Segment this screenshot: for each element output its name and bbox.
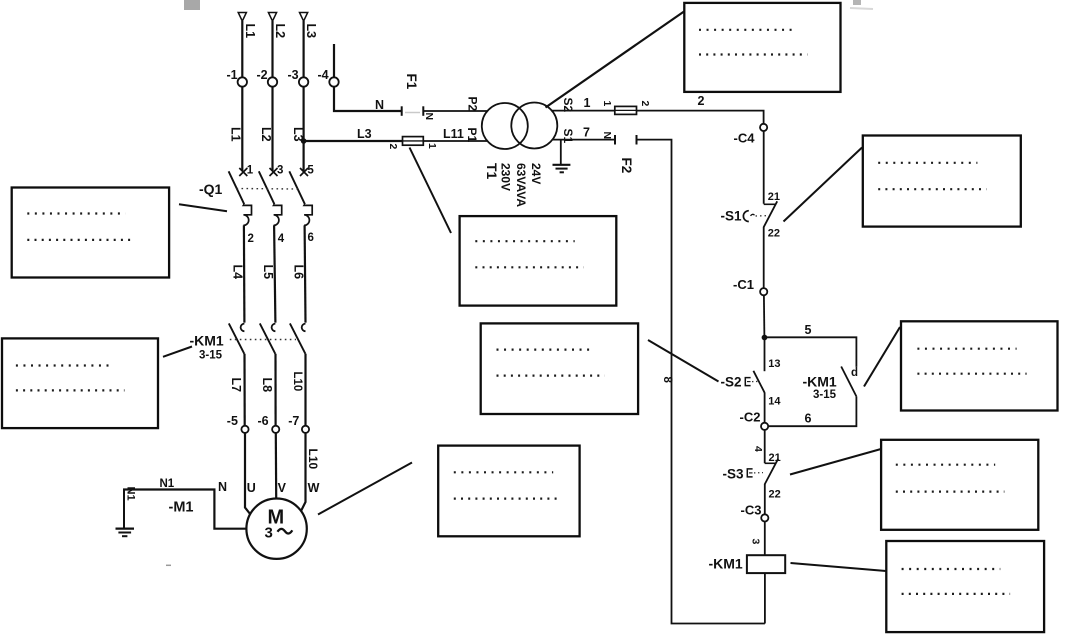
callout box coil (886, 541, 1044, 632)
wire 5 branch (765, 337, 857, 367)
svg-text:L11: L11 (443, 127, 464, 141)
wire N1 to motor (123, 490, 246, 529)
KM1 aux contact NO (841, 367, 856, 397)
svg-text:2: 2 (639, 101, 651, 107)
callout box Q1 (12, 188, 169, 278)
svg-text:-C2: -C2 (740, 410, 761, 425)
Q1 pole2 contact cross pin3 (270, 165, 284, 177)
svg-text:230V: 230V (499, 163, 513, 191)
svg-text:-5: -5 (227, 414, 238, 428)
svg-text:-KM1: -KM1 (190, 333, 224, 349)
junction node (762, 335, 768, 341)
terminal -4 (329, 77, 338, 86)
svg-text:L7: L7 (229, 378, 243, 393)
svg-text:d: d (851, 367, 858, 379)
svg-text:-3: -3 (288, 68, 299, 82)
KM1 pole3 blade (290, 323, 306, 353)
svg-text:63VAVA: 63VAVA (514, 163, 528, 207)
svg-text:P2: P2 (465, 97, 479, 112)
svg-text:N1: N1 (160, 478, 175, 490)
wire S2 out (552, 110, 615, 112)
supply arrow L3 (300, 13, 308, 22)
leader S3 to box (790, 449, 881, 475)
leader fuse to box (410, 148, 452, 234)
svg-text:L3: L3 (304, 24, 318, 39)
KM1 pole3 fixed contact hook (302, 324, 306, 332)
pushbutton S3 NC contact (765, 459, 779, 485)
wire F1 to P2 (423, 110, 487, 112)
terminal -6 (272, 426, 279, 433)
fuse on L3 primary (403, 137, 424, 146)
Q1 pole2 trip unit (274, 204, 282, 225)
svg-text:L3: L3 (357, 127, 372, 141)
svg-text:1: 1 (584, 96, 591, 110)
terminal -C2 (761, 423, 768, 430)
svg-text:T1: T1 (484, 163, 500, 180)
pushbutton S2 NO contact (753, 371, 764, 393)
svg-text:21: 21 (768, 191, 780, 203)
terminal -7 (302, 426, 309, 433)
svg-text:6: 6 (805, 412, 812, 426)
F2 tick left (614, 135, 616, 145)
svg-text:8: 8 (661, 377, 673, 384)
wire phase L3 vertical (303, 21, 305, 171)
KM1 pole2 blade (260, 323, 276, 353)
svg-text:-M1: -M1 (169, 500, 194, 516)
svg-text:U: U (247, 481, 256, 495)
supply arrow L1 (238, 13, 246, 22)
Q1 pole3 blade (289, 171, 305, 204)
svg-text:-2: -2 (257, 68, 268, 82)
svg-text:L1: L1 (229, 127, 243, 142)
KM1 pole2 lower wire L8 (274, 354, 276, 425)
leader box to KM1 (163, 347, 192, 357)
F2 tick right (636, 135, 638, 145)
svg-text:4: 4 (278, 233, 285, 245)
svg-text:22: 22 (769, 489, 781, 501)
svg-text:L10: L10 (291, 372, 303, 392)
transformer ground tap (553, 140, 571, 173)
wire S2 to C2 (764, 393, 766, 423)
S3 actuator (747, 469, 763, 477)
svg-text:L1: L1 (243, 24, 257, 39)
svg-text:-S1: -S1 (721, 209, 743, 224)
terminal -2 (268, 77, 277, 86)
svg-text:L6: L6 (291, 265, 305, 280)
svg-text:4: 4 (752, 446, 764, 452)
S1 mushroom actuator (743, 211, 769, 222)
wire U from -5 to motor (245, 433, 251, 515)
wire 6 return (768, 397, 856, 427)
transformer T1 primary winding (482, 103, 528, 149)
callout box trafo (684, 3, 840, 92)
svg-text:-C3: -C3 (741, 503, 762, 518)
svg-text:-C4: -C4 (734, 131, 756, 146)
wire C1 to junction (763, 295, 766, 338)
svg-text:5: 5 (805, 323, 812, 337)
svg-text:F2: F2 (619, 158, 634, 174)
svg-text:-7: -7 (288, 414, 299, 428)
svg-text:P1: P1 (465, 128, 479, 143)
svg-text:22: 22 (768, 228, 780, 240)
F1 tick left (401, 106, 403, 116)
wire coil to bottom (764, 573, 766, 623)
wire S3 to C3 (764, 484, 766, 514)
callout box fuse (460, 216, 617, 306)
fuse on control circuit (615, 106, 637, 114)
scan artifact faint line top-right (850, 8, 873, 9)
svg-text:-1: -1 (227, 68, 238, 82)
svg-text:24V: 24V (529, 163, 543, 184)
terminal -5 (241, 426, 248, 433)
wire phase L2 vertical (271, 21, 273, 171)
callout box motor (438, 446, 579, 537)
leader box to S2 (648, 340, 719, 382)
wire S1 out (553, 139, 616, 141)
svg-text:-6: -6 (258, 414, 269, 428)
Q1 pole1 contact cross pin1 (239, 165, 254, 177)
Q1 pole1 output wire L4 (243, 225, 246, 322)
svg-text:-KM1: -KM1 (709, 556, 743, 572)
wire V from -6 to motor (275, 433, 278, 499)
terminal -C4 (760, 124, 767, 131)
svg-text:N: N (423, 113, 435, 121)
scan artifact gray square top-left (184, 0, 200, 10)
leader coil to box (791, 563, 887, 571)
F1 faint link (405, 112, 420, 114)
svg-text:3: 3 (277, 165, 283, 177)
node L3 junction (301, 138, 307, 144)
svg-text:5: 5 (307, 165, 314, 177)
svg-text:-C1: -C1 (733, 277, 754, 292)
KM1 pole3 lower wire L10 (304, 354, 306, 425)
svg-text:N: N (375, 98, 384, 112)
S2 actuator (745, 378, 759, 386)
svg-text:13: 13 (768, 358, 780, 370)
callout box S1 (863, 136, 1021, 227)
svg-text:2: 2 (698, 94, 705, 108)
wire 2 to C4 (637, 111, 764, 124)
svg-text:N: N (218, 480, 227, 494)
svg-text:L2: L2 (273, 24, 287, 39)
leader box to Q1 (179, 204, 227, 211)
Q1 gang dashed link (237, 188, 298, 191)
leader KM1 aux to box (864, 327, 900, 387)
svg-text:S2: S2 (561, 98, 575, 113)
svg-text:S1: S1 (561, 129, 575, 144)
terminal -C3 (761, 514, 768, 521)
terminal -C1 (760, 288, 767, 295)
wire C2 to S3 (764, 430, 766, 463)
callout box S2 (481, 323, 638, 414)
svg-text:2: 2 (248, 233, 254, 245)
svg-text:L5: L5 (261, 265, 275, 280)
svg-text:3: 3 (265, 525, 273, 542)
Q1 pole2 blade (259, 171, 275, 204)
KM1 pole2 fixed contact hook (272, 324, 276, 332)
svg-text:L10: L10 (306, 449, 320, 470)
wire neutral drop (334, 44, 402, 111)
callout box KM1 aux (901, 321, 1058, 410)
Q1 pole1 trip unit (243, 204, 251, 225)
svg-text:F1: F1 (404, 74, 419, 90)
wire phase L1 vertical (241, 21, 243, 171)
svg-text:W: W (308, 481, 320, 495)
leader trafo to box (546, 12, 685, 108)
svg-text:-S2: -S2 (721, 375, 742, 390)
coil KM1 (747, 555, 785, 573)
callout box KM1 (2, 338, 158, 428)
wire W from -7 to motor (301, 433, 306, 512)
svg-text:14: 14 (768, 396, 781, 408)
wire 8 down right side (637, 140, 765, 624)
svg-text:L2: L2 (259, 127, 273, 142)
wire junction to S2 (764, 337, 766, 371)
supply arrow L2 (268, 13, 276, 22)
svg-text:-KM1: -KM1 (803, 374, 837, 390)
Q1 pole2 output wire L5 (274, 225, 275, 322)
svg-text:L4: L4 (231, 265, 245, 280)
svg-text:L8: L8 (260, 378, 274, 393)
Q1 pole3 trip unit (304, 204, 312, 225)
pushbutton S1 NC contact (764, 201, 778, 227)
svg-text:3-15: 3-15 (199, 350, 223, 362)
wire L11 to P1 (423, 140, 487, 142)
Q1 pole1 blade (229, 171, 245, 204)
svg-text:21: 21 (769, 452, 781, 464)
KM1 pole1 blade (229, 323, 245, 353)
svg-text:1: 1 (426, 143, 438, 149)
wire L3 to fuse (304, 140, 403, 142)
wire C3 to coil (764, 522, 766, 556)
scan artifact gray square top-right (853, 0, 861, 5)
wire C4 to S1 (763, 131, 765, 204)
svg-text:1: 1 (247, 165, 254, 177)
ground left (116, 490, 135, 537)
KM1 pole1 fixed contact hook (241, 324, 245, 332)
svg-text:3-15: 3-15 (813, 389, 837, 401)
motor tilde (278, 529, 293, 534)
svg-text:-Q1: -Q1 (199, 181, 223, 197)
terminal -3 (299, 77, 308, 86)
wire S1 to C1 (763, 227, 765, 288)
leader motor to box (318, 463, 412, 515)
svg-text:2: 2 (387, 144, 399, 150)
Q1 pole3 output wire L6 (304, 225, 307, 322)
motor M1 body (246, 499, 306, 559)
svg-text:7: 7 (583, 126, 590, 140)
leader S1 to box (784, 148, 863, 222)
F1 tick right (422, 106, 424, 116)
transformer T1 secondary winding (511, 103, 557, 149)
Q1 pole3 contact cross pin5 (300, 165, 314, 177)
svg-text:-4: -4 (318, 68, 329, 82)
terminal -1 (238, 77, 247, 86)
KM1 gang dashed link (230, 339, 296, 341)
svg-text:3: 3 (749, 539, 761, 545)
svg-text:-S3: -S3 (723, 467, 745, 482)
svg-text:V: V (278, 481, 287, 495)
callout box S3 (881, 440, 1038, 530)
svg-text:N: N (601, 132, 613, 140)
svg-text:6: 6 (308, 232, 314, 244)
KM1 pole1 lower wire L7 (243, 354, 245, 425)
scan artifact small dash (166, 564, 171, 566)
svg-text:1: 1 (601, 101, 613, 107)
